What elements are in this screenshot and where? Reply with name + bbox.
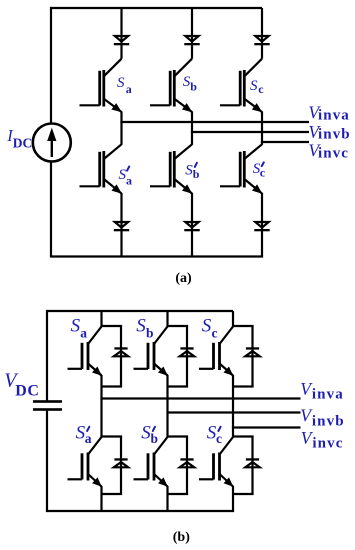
svg-text:c: c xyxy=(216,431,222,446)
wire: (b) phase-b leg, top rail to collector node xyxy=(166,311,168,327)
svg-text:b: b xyxy=(190,79,197,93)
wire: section (a) top DC rail xyxy=(51,7,262,9)
wire: (a) output line Vinva xyxy=(120,121,309,123)
transistor Sa (IGBT, top switch phase a) xyxy=(80,59,122,113)
svg-text:DC: DC xyxy=(15,383,39,400)
svg-text:a: a xyxy=(126,82,132,96)
wire: (b) upper diode loop top (phase c) xyxy=(233,325,254,327)
transistor Sb (IGBT, top switch phase b) xyxy=(150,59,192,113)
svg-text:S: S xyxy=(136,316,146,337)
transistor Sb' (IGBT, bottom switch phase b) xyxy=(150,144,192,194)
wire: (b) phase-b midpoint segment xyxy=(166,375,168,437)
wire: (b) upper diode loop right (phase b) xyxy=(186,326,188,387)
wire: (a) phase-c leg, Sc' through diode to bottom rail xyxy=(261,193,263,257)
wire: (b) phase-a midpoint segment xyxy=(100,375,102,437)
wire: (b) lower diode loop top (phase c) xyxy=(233,435,254,437)
wire: section (a) bottom DC rail xyxy=(50,255,263,257)
svg-text:inva: inva xyxy=(318,108,350,124)
wire: (a) phase-a leg, top rail through diode to switch Sa xyxy=(120,8,122,59)
wire: (b) phase-b leg, emitter to bottom rail xyxy=(166,486,168,511)
wire: (b) upper diode loop top (phase b) xyxy=(168,325,189,327)
svg-text:S: S xyxy=(71,316,81,337)
wire: (b) left bus lower (capacitor to bottom rail) xyxy=(46,410,48,511)
wire: (b) lower diode loop top (phase b) xyxy=(168,435,189,437)
svg-text:(b): (b) xyxy=(173,530,190,545)
series diode Db1 (top, conducts down) xyxy=(184,36,199,45)
wire: (b) phase-a leg, emitter to bottom rail xyxy=(100,486,102,511)
svg-text:a: a xyxy=(80,325,87,340)
wire: (b) left bus upper (rail to capacitor) xyxy=(46,310,48,401)
svg-text:invb: invb xyxy=(312,414,345,430)
wire: (a) phase-a leg, Sa' through diode to bottom rail xyxy=(120,193,122,257)
wire: (a) phase-b leg, top rail through diode to switch Sb xyxy=(191,8,193,59)
wire: (b) upper diode loop bottom (phase c) xyxy=(233,385,254,387)
freewheel diode Da' (antiparallel with Sa') xyxy=(114,458,128,467)
svg-text:c: c xyxy=(260,165,266,179)
svg-text:invc: invc xyxy=(312,436,343,452)
wire: (b) output line Vinva xyxy=(100,397,300,399)
capacitor VDC xyxy=(33,400,62,411)
wire: (b) lower diode loop right (phase a) xyxy=(120,437,122,495)
wire: (a) phase-b midpoint segment xyxy=(191,112,193,145)
svg-text:b: b xyxy=(146,325,154,340)
wire: (a) phase-c leg, top rail through diode to switch Sc xyxy=(261,8,263,59)
transistor Sa' (IGBT, bottom switch phase a) xyxy=(80,144,122,194)
svg-text:c: c xyxy=(258,82,264,96)
wire: (b) phase-c leg, emitter to bottom rail xyxy=(232,486,234,511)
svg-text:S: S xyxy=(117,75,125,91)
wire: (b) upper diode loop right (phase c) xyxy=(251,326,253,387)
svg-text:(a): (a) xyxy=(175,271,192,286)
wire: section (b) top DC rail xyxy=(47,310,233,312)
svg-text:a: a xyxy=(126,174,132,188)
wire: (a) phase-c midpoint segment xyxy=(261,112,263,145)
wire: (a) output line Vinvc xyxy=(261,141,309,143)
freewheel diode Db (antiparallel with Sb) xyxy=(180,347,194,356)
wire: (b) lower diode loop bottom (phase c) xyxy=(233,493,254,495)
wire: (b) output line Vinvc xyxy=(232,426,301,428)
svg-text:DC: DC xyxy=(13,135,33,150)
series diode Dc1 (top, conducts down) xyxy=(254,36,269,45)
svg-text:b: b xyxy=(193,167,200,181)
series diode Db2 (bottom, conducts down) xyxy=(184,222,199,231)
svg-text:invb: invb xyxy=(318,126,351,142)
transistor Sa' (IGBT, bottom switch phase a) xyxy=(68,437,102,487)
series diode Da1 (top, conducts down) xyxy=(114,36,129,45)
transistor Sc' (IGBT, bottom switch phase c) xyxy=(220,144,262,194)
wire: section (b) bottom DC rail xyxy=(46,510,234,512)
wire: (b) phase-c leg, top rail to collector node xyxy=(232,311,234,327)
wire: (b) upper diode loop top (phase a) xyxy=(102,325,123,327)
transistor Sb' (IGBT, bottom switch phase b) xyxy=(134,437,168,487)
transistor Sc' (IGBT, bottom switch phase c) xyxy=(199,437,233,487)
wire: (b) phase-a leg, top rail to collector node xyxy=(100,311,102,327)
svg-text:S: S xyxy=(250,78,258,94)
svg-text:invc: invc xyxy=(318,145,349,161)
wire: section (a) left DC bus xyxy=(50,7,52,257)
wire: (b) upper diode loop bottom (phase a) xyxy=(102,385,123,387)
transistor Sc (IGBT, top switch phase c) xyxy=(199,327,233,376)
wire: (a) phase-b leg, Sb' through diode to bottom rail xyxy=(191,193,193,257)
svg-text:inva: inva xyxy=(312,387,344,403)
svg-text:b: b xyxy=(151,431,159,446)
freewheel diode Dc (antiparallel with Sc) xyxy=(245,347,259,356)
series diode Da2 (bottom, conducts down) xyxy=(114,222,129,231)
wire: (b) output line Vinvb xyxy=(166,411,300,413)
wire: (b) upper diode loop bottom (phase b) xyxy=(168,385,189,387)
transistor Sa (IGBT, top switch phase a) xyxy=(68,327,102,376)
wire: (a) phase-a midpoint segment xyxy=(120,112,122,145)
freewheel diode Da (antiparallel with Sa) xyxy=(114,347,128,356)
wire: (b) lower diode loop right (phase c) xyxy=(251,437,253,495)
svg-text:c: c xyxy=(212,325,218,340)
wire: (a) output line Vinvb xyxy=(191,131,309,133)
series diode Dc2 (bottom, conducts down) xyxy=(254,222,269,231)
wire: (b) lower diode loop top (phase a) xyxy=(102,435,123,437)
freewheel diode Dc' (antiparallel with Sc') xyxy=(245,458,259,467)
freewheel diode Db' (antiparallel with Sb') xyxy=(180,458,194,467)
wire: (b) upper diode loop right (phase a) xyxy=(120,326,122,387)
transistor Sb (IGBT, top switch phase b) xyxy=(134,327,168,376)
wire: (b) lower diode loop bottom (phase b) xyxy=(168,493,189,495)
transistor Sc (IGBT, top switch phase c) xyxy=(220,59,262,113)
wire: (b) phase-c midpoint segment xyxy=(232,375,234,437)
wire: (b) lower diode loop right (phase b) xyxy=(186,437,188,495)
svg-text:S: S xyxy=(202,316,212,337)
svg-text:a: a xyxy=(85,431,92,446)
wire: (b) lower diode loop bottom (phase a) xyxy=(102,493,123,495)
current source IDC (circle) xyxy=(33,124,71,162)
